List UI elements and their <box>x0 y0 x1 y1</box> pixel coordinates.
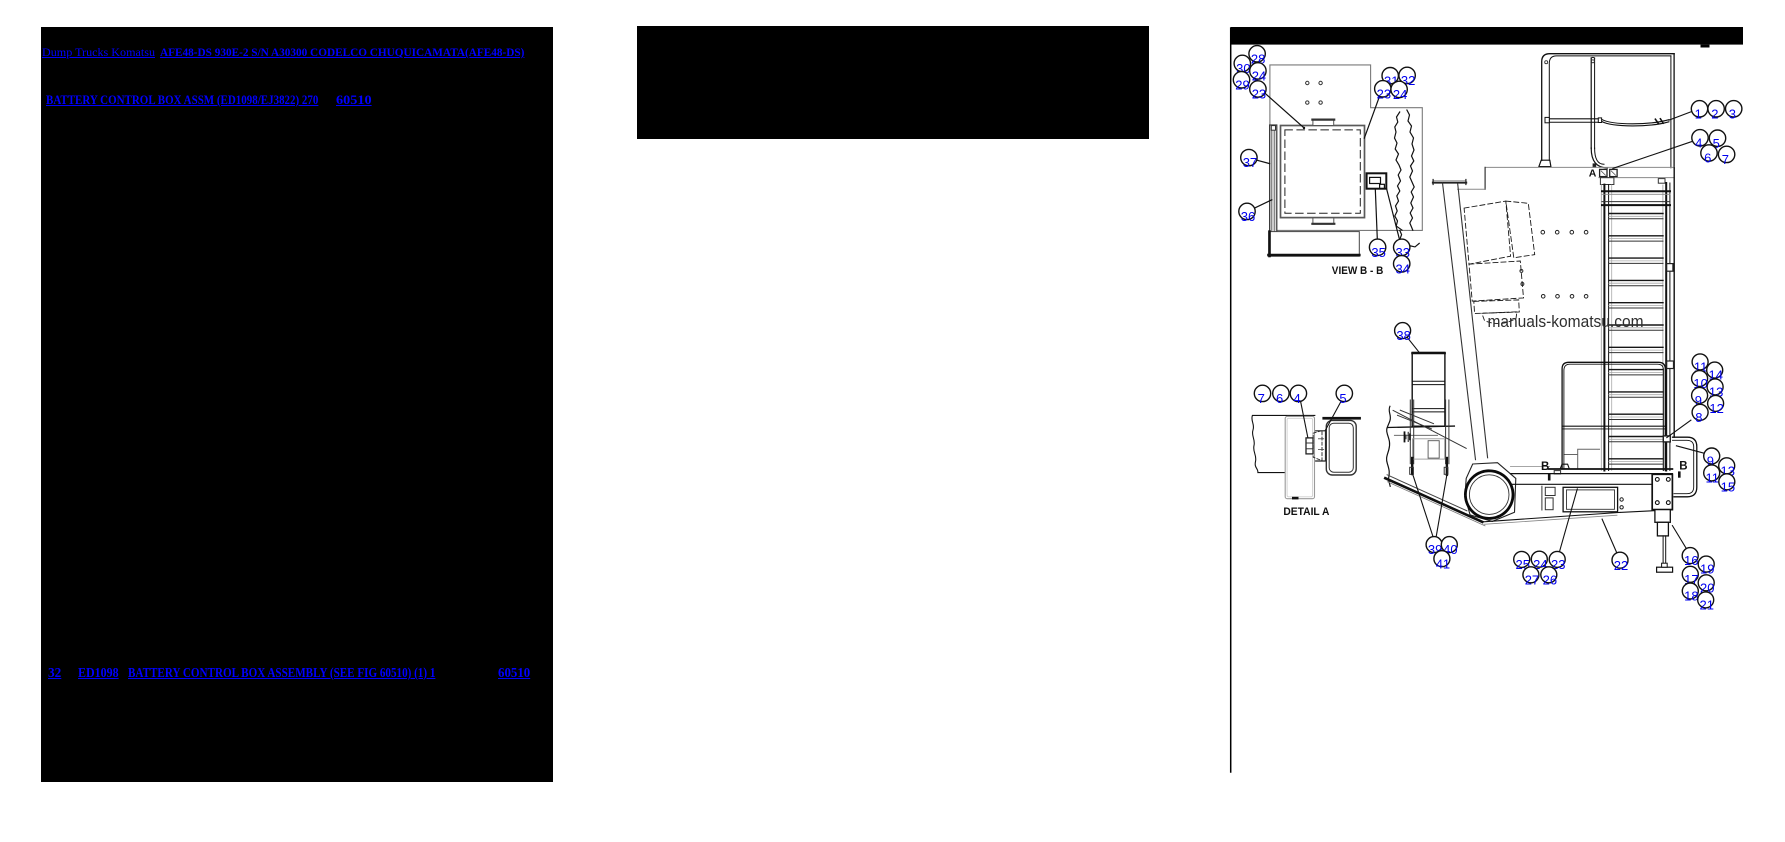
callout 4 detail <box>1290 385 1306 401</box>
callout 26 <box>1541 567 1557 583</box>
callout 25 <box>1514 551 1530 567</box>
lower handrail left foot <box>1560 464 1569 469</box>
callout 2 <box>1708 101 1724 117</box>
view B-B battery box dashed inner rect <box>1285 130 1360 213</box>
callout 18 <box>1682 583 1698 599</box>
leader to item 1 <box>1669 112 1692 121</box>
link row 2 <box>46 94 318 107</box>
fog lamp housing <box>1465 463 1516 522</box>
bumper bottom edge <box>1482 512 1620 522</box>
callout 24 mid <box>1391 81 1407 97</box>
step box bolts <box>1620 498 1623 501</box>
truck body right edge <box>1673 168 1675 437</box>
svg-text:29: 29 <box>1235 77 1249 92</box>
svg-text:21: 21 <box>1700 598 1714 613</box>
leader to item 16 <box>1672 526 1686 549</box>
leader line item 23 right <box>1364 97 1379 138</box>
leader line item 23 left <box>1265 93 1304 128</box>
platform under-step outline <box>1564 449 1600 469</box>
leader to item 9 lower <box>1676 446 1705 454</box>
leader to item 8 <box>1667 420 1691 437</box>
view B-B mounting plate outline <box>1270 65 1422 231</box>
callout 21 <box>1698 592 1714 608</box>
frame beam upper <box>1388 426 1455 427</box>
callout 41 <box>1434 551 1450 567</box>
link row 1 <box>42 46 155 58</box>
svg-text:7: 7 <box>1258 391 1265 406</box>
view B-B plate bolt holes <box>1306 81 1309 84</box>
exhaust strut cap <box>1433 182 1466 184</box>
svg-text:A: A <box>1589 168 1597 180</box>
exhaust strut diagonal right line <box>1458 184 1488 458</box>
svg-text:37: 37 <box>1243 155 1257 170</box>
svg-text:4: 4 <box>1695 135 1702 150</box>
body bolt holes row 1 <box>1541 230 1545 234</box>
callout 19 <box>1698 556 1714 572</box>
frame pocket outer <box>1413 439 1445 459</box>
callout 33 <box>1394 239 1410 255</box>
callout 35 <box>1369 239 1385 255</box>
leader detail A item 5 <box>1325 401 1341 431</box>
diagram top black bar <box>1231 27 1743 45</box>
callout 36 <box>1239 203 1255 219</box>
callout 23 lower <box>1549 551 1565 567</box>
ladder top right bracket <box>1658 179 1665 184</box>
svg-text:B: B <box>1679 461 1687 473</box>
callout 10 <box>1692 371 1708 387</box>
platform deck top line <box>1485 166 1674 168</box>
jack block upper <box>1655 510 1670 523</box>
link row 3 <box>48 666 61 680</box>
diagram left border line <box>1230 28 1232 772</box>
right grab rail outer <box>1673 437 1697 497</box>
view B-B torn-edge squiggle right <box>1407 110 1414 230</box>
view B-B side connector bracket (items 33/35) <box>1367 173 1387 188</box>
svg-text:23: 23 <box>1377 86 1391 101</box>
lower handrail inner <box>1564 364 1664 470</box>
callout 7 detail <box>1254 385 1270 401</box>
leader line item 36 <box>1254 200 1272 208</box>
engine dashed box 2 <box>1506 201 1535 258</box>
detail A handle top bar <box>1322 417 1361 420</box>
view B-B torn corner tail <box>1400 230 1419 248</box>
svg-text:18: 18 <box>1684 589 1698 604</box>
svg-text:15: 15 <box>1721 479 1735 494</box>
bumper step box <box>1563 487 1618 512</box>
svg-text:35: 35 <box>1371 245 1385 260</box>
frame column left <box>1409 400 1411 464</box>
svg-text:2: 2 <box>1711 106 1718 121</box>
frame column right <box>1445 400 1447 464</box>
svg-text:41: 41 <box>1436 556 1450 571</box>
svg-text:6: 6 <box>1704 151 1711 166</box>
callout 37 <box>1241 149 1257 165</box>
ladder top left foot plate <box>1600 178 1614 185</box>
svg-text:26: 26 <box>1543 572 1557 587</box>
ladder left rail <box>1600 185 1602 471</box>
detail A clip bracket (item 4) <box>1306 438 1313 454</box>
mounting pin right (item 40) <box>1446 458 1448 475</box>
bumper left bracket <box>1545 487 1555 495</box>
lower-left step diagonals <box>1398 415 1432 429</box>
svg-text:23: 23 <box>1252 87 1266 102</box>
top handrail right post <box>1670 56 1672 168</box>
leader to item 4 top <box>1613 142 1692 169</box>
svg-text:22: 22 <box>1614 558 1628 573</box>
view B-B bottom extension plate <box>1269 232 1360 257</box>
callout 6 <box>1701 145 1717 161</box>
callout 23 mid <box>1375 81 1391 97</box>
callout 24 lower <box>1531 551 1547 567</box>
leader to item 40 <box>1436 475 1447 537</box>
ladder right rail <box>1662 185 1664 471</box>
power cable sagging <box>1602 119 1669 124</box>
lower handrail outer <box>1562 362 1665 470</box>
callout 23 left <box>1250 81 1266 97</box>
callout 24 left <box>1250 63 1266 79</box>
svg-text:VIEW B - B: VIEW B - B <box>1332 265 1384 277</box>
svg-text:5: 5 <box>1339 391 1346 406</box>
bumper deck line <box>1511 466 1550 468</box>
handrail mid horizontal rail <box>1549 118 1598 120</box>
jack foot <box>1657 567 1673 572</box>
top handrail inner rail <box>1549 56 1671 160</box>
battery box side view (item 38 box) <box>1412 352 1445 426</box>
callout 7 <box>1718 146 1734 162</box>
right grab rail inner <box>1673 440 1694 493</box>
svg-text:11: 11 <box>1706 471 1720 486</box>
ladder top band <box>1602 190 1670 192</box>
engine rounded bottom piece <box>1482 312 1517 324</box>
ladder rail tab lower <box>1667 361 1674 369</box>
svg-text:1: 1 <box>1695 106 1702 121</box>
frame pocket inner <box>1428 441 1439 458</box>
svg-text:36: 36 <box>1241 209 1255 224</box>
fog lamp inner ring <box>1469 475 1509 515</box>
callout 16 <box>1682 548 1698 564</box>
callout 11 upper <box>1692 354 1708 370</box>
ladder rail tab upper <box>1667 264 1673 272</box>
leader to item 38 <box>1407 337 1419 352</box>
leader line item 35 <box>1375 189 1377 239</box>
svg-text:6: 6 <box>1276 391 1283 406</box>
body bolt holes row 2 <box>1541 295 1545 299</box>
leader detail A item 4 <box>1301 401 1308 438</box>
svg-text:8: 8 <box>1695 410 1702 425</box>
fog lamp knurled ring <box>1465 471 1513 519</box>
callout 9 upper <box>1692 387 1708 403</box>
small frame ticks <box>1409 434 1411 439</box>
callout 29 <box>1233 72 1249 88</box>
callout 13 lower <box>1719 458 1735 474</box>
callout 4 <box>1692 130 1708 146</box>
detail A tall panel <box>1285 416 1314 498</box>
callout 22 <box>1612 552 1628 568</box>
truck torn left edge <box>1387 406 1391 486</box>
platform step line <box>1458 188 1486 190</box>
svg-text:12: 12 <box>1709 401 1723 416</box>
exhaust strut diagonal left line <box>1443 183 1476 460</box>
engine dashed box 1 <box>1464 201 1511 264</box>
left black panel <box>41 27 553 782</box>
leader to item 39 <box>1413 474 1433 537</box>
svg-text:38: 38 <box>1396 328 1410 343</box>
svg-text:B: B <box>1541 461 1549 473</box>
svg-text:27: 27 <box>1525 572 1539 587</box>
leader line item 37 <box>1257 160 1270 163</box>
engine box bolt circles <box>1520 269 1523 272</box>
svg-text:3: 3 <box>1729 106 1736 121</box>
handrail elbow pipe <box>1591 148 1607 168</box>
callout 5 detail <box>1336 385 1352 401</box>
lower handrail mid bar <box>1562 425 1665 427</box>
callout 27 <box>1523 567 1539 583</box>
platform deck lower line <box>1599 177 1674 179</box>
big thick lower-left diagonal <box>1385 478 1482 522</box>
svg-text:4: 4 <box>1294 391 1301 406</box>
callout 30 <box>1234 55 1250 71</box>
ladder top clamp squares <box>1600 169 1607 176</box>
callout 39 <box>1426 537 1442 553</box>
bumper beam bottom <box>1511 483 1653 485</box>
callout 15 <box>1719 474 1735 490</box>
handrail mid vertical bar <box>1590 58 1592 149</box>
svg-text:manuals-komatsu.com: manuals-komatsu.com <box>1488 313 1644 331</box>
svg-text:34: 34 <box>1396 261 1410 276</box>
callout 6 detail <box>1273 385 1289 401</box>
jack rod <box>1662 536 1664 567</box>
detail A torn plate <box>1252 415 1315 472</box>
callout 12 <box>1708 395 1724 411</box>
callout 17 <box>1682 566 1698 582</box>
callout 34 <box>1394 256 1410 272</box>
view B-B bottom handle <box>1313 218 1334 224</box>
view B-B torn-edge squiggle left <box>1395 112 1403 230</box>
callout 20 <box>1698 575 1714 591</box>
body diagonal upper <box>1393 410 1466 448</box>
svg-text:7: 7 <box>1722 152 1729 167</box>
callout 5 <box>1709 130 1725 146</box>
callout 1 <box>1691 101 1707 117</box>
ladder rungs <box>1602 201 1670 203</box>
leader line item 33 <box>1387 189 1400 239</box>
callout 8 <box>1692 404 1708 420</box>
engine dashed box 4 <box>1474 300 1520 314</box>
leader to item 23 bottom <box>1560 489 1578 552</box>
svg-text:DETAIL A: DETAIL A <box>1283 506 1329 518</box>
platform left drop edge <box>1484 167 1486 189</box>
callout 11 lower <box>1704 465 1720 481</box>
handrail left post foot <box>1539 160 1551 166</box>
callout 14 <box>1707 362 1723 378</box>
callout 38 <box>1395 323 1411 339</box>
callout 32 <box>1399 67 1415 83</box>
callout 31 <box>1382 68 1398 84</box>
rail clamp on ladder (items 8/9) <box>1663 436 1670 442</box>
callout 3 <box>1726 101 1742 117</box>
mid black box <box>637 26 1149 139</box>
leader to item 22 <box>1602 519 1617 553</box>
svg-text:24: 24 <box>1393 87 1407 102</box>
view B-B battery box <box>1281 126 1365 218</box>
detail A grab handle (item 5) <box>1326 420 1356 475</box>
mounting pin left (item 39) <box>1411 458 1413 474</box>
callout 9 lower <box>1704 448 1720 464</box>
callout 28 <box>1249 46 1265 62</box>
view B-B top handle <box>1313 119 1334 125</box>
callout 13 upper <box>1707 379 1723 395</box>
cable clamp marks <box>1655 119 1658 123</box>
jack mounting plate <box>1652 474 1672 509</box>
view B-B left mounting strip <box>1270 125 1277 255</box>
bumper beam top <box>1511 473 1673 475</box>
jack block lower <box>1657 522 1668 536</box>
callout 40 <box>1441 537 1457 553</box>
engine dashed box 3 <box>1469 261 1524 301</box>
handrail corner bolt <box>1545 61 1548 64</box>
top handrail outer rail <box>1542 54 1674 161</box>
